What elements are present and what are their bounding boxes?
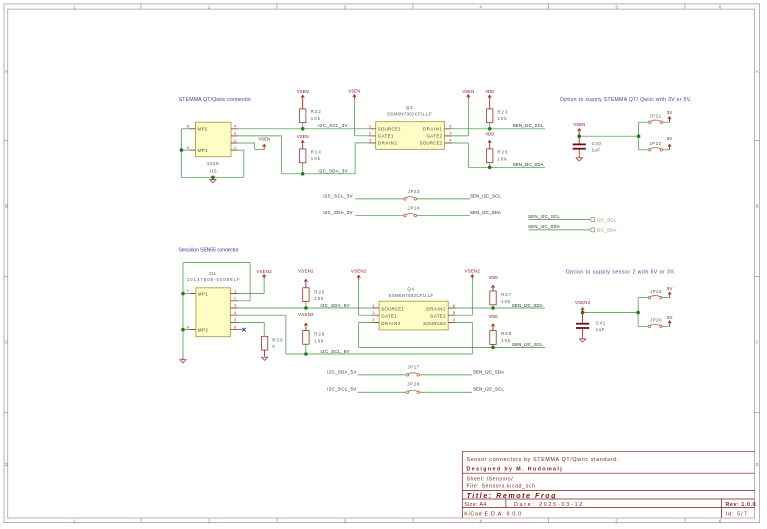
resistor R25 [487, 149, 509, 163]
svg-text:SEN_I2C_SDA: SEN_I2C_SDA [513, 162, 544, 167]
svg-text:GATE2: GATE2 [426, 134, 442, 139]
capacitor C40 1uF [573, 136, 602, 155]
wire [529, 219, 590, 221]
wire [637, 313, 639, 327]
label I2C_SCL_5V (JP28) [327, 387, 356, 392]
svg-text:10k: 10k [501, 338, 511, 343]
wire [231, 128, 376, 130]
resistor R29 [490, 331, 512, 345]
wire [231, 300, 250, 302]
wire [181, 128, 195, 130]
svg-text:I2C_SDA: I2C_SDA [597, 228, 617, 233]
svg-text:JP28: JP28 [407, 382, 420, 387]
svg-text:I2C_SCL_5V: I2C_SCL_5V [320, 349, 349, 354]
wire [181, 149, 195, 151]
wire [448, 314, 472, 316]
label SEN_I2C_SDA (hier row) [528, 224, 560, 229]
wire [231, 314, 286, 316]
junction node VSEN2 / C41 [581, 311, 585, 315]
svg-text:3V: 3V [667, 110, 673, 115]
junction J11 MP1 node [181, 292, 185, 296]
svg-text:Rev: 1.0.0: Rev: 1.0.0 [726, 502, 757, 508]
pin numbers J10 [187, 124, 237, 150]
wire [355, 215, 403, 217]
svg-text:VSEN: VSEN [462, 89, 474, 94]
svg-text:VSEN: VSEN [297, 89, 309, 94]
svg-text:SEN_I2C_SCL: SEN_I2C_SCL [512, 342, 543, 347]
wire [285, 315, 287, 354]
power VSEN2 (Q4 GATE1) [351, 269, 367, 281]
svg-text:10k: 10k [497, 116, 507, 121]
wire [662, 297, 669, 299]
wire [448, 307, 545, 309]
svg-text:4208: 4208 [207, 161, 220, 166]
svg-text:SEN_I2C_SCL: SEN_I2C_SCL [470, 193, 501, 198]
wire [358, 391, 406, 393]
svg-text:R27: R27 [501, 292, 512, 297]
pin numbers Q3 [369, 124, 453, 143]
power 5V (JP22) [667, 136, 673, 150]
svg-text:VDD: VDD [489, 275, 498, 280]
svg-text:Option to supply sensor 2 with: Option to supply sensor 2 with 5V or 3V. [566, 269, 676, 275]
no-connect J11 pin 6 [242, 328, 246, 332]
svg-text:1uF: 1uF [592, 147, 601, 152]
svg-text:JP26: JP26 [650, 318, 663, 323]
svg-text:GATE1: GATE1 [378, 134, 394, 139]
svg-text:10k: 10k [501, 299, 511, 304]
svg-text:10k: 10k [497, 156, 507, 161]
wire [281, 136, 283, 174]
svg-text:D: D [755, 462, 758, 467]
junction node SEN_I2C_SDA / R27 [491, 306, 495, 310]
power VDD (R23) [485, 89, 494, 109]
svg-text:0: 0 [272, 344, 275, 349]
pin numbers Q4 [372, 303, 456, 322]
wire [663, 121, 670, 123]
junction node I2C_SCL_3V / R22 [301, 127, 305, 131]
svg-text:JP21: JP21 [649, 113, 662, 118]
svg-text:R25: R25 [497, 150, 508, 155]
svg-text:VDD: VDD [485, 132, 494, 137]
label SEN_I2C_SDA (JP24) [470, 210, 501, 215]
power VSEN (J10 pin2) [258, 137, 270, 150]
svg-text:I2C_SDA_3V: I2C_SDA_3V [318, 168, 347, 173]
wire [489, 163, 491, 168]
svg-text:I2C_SCL_3V: I2C_SCL_3V [318, 123, 347, 128]
svg-text:Sensirion SEN55 connector: Sensirion SEN55 connector [179, 248, 239, 254]
power 5V (JP25) [667, 286, 673, 297]
label I2C_SDA_3V (wire) [318, 168, 347, 173]
wire [529, 229, 590, 231]
dual MOSFET Q3 SSM6N7002CFU,LF [369, 105, 452, 150]
wire [637, 298, 639, 313]
jumper JP22 [649, 141, 663, 151]
svg-text:1uF: 1uF [596, 327, 605, 332]
svg-text:SSM6N7002CFU,LF: SSM6N7002CFU,LF [389, 293, 434, 298]
wire [662, 325, 669, 327]
wire [639, 121, 649, 123]
wire [286, 353, 472, 355]
hierarchical label I2C_SCL [590, 217, 617, 222]
wire [263, 322, 265, 336]
svg-text:VDD: VDD [489, 314, 498, 319]
junction J10 MP1 node [180, 148, 184, 152]
svg-text:10k: 10k [314, 296, 324, 301]
wire [417, 198, 470, 200]
svg-text:VSEN2: VSEN2 [351, 269, 367, 274]
svg-text:VSEN: VSEN [258, 137, 270, 142]
power VSEN (R24) [297, 134, 309, 149]
svg-text:VSEN: VSEN [348, 89, 360, 94]
label SEN_I2C_SCL (wire) [513, 123, 544, 128]
label SEN_I2C_SDA (wire bottom) [512, 303, 543, 308]
connector J11 (10147806-00008LF) [187, 271, 242, 337]
svg-text:GATE1: GATE1 [381, 314, 397, 319]
wire [417, 215, 470, 217]
junction node I2C_SDA_3V / R24 [301, 172, 305, 176]
svg-text:MP1: MP1 [198, 292, 208, 297]
svg-text:R28: R28 [314, 331, 325, 336]
svg-text:VSEN2: VSEN2 [465, 268, 481, 273]
junction node SEN_I2C_SDA / R25 [488, 166, 492, 170]
svg-text:Q4: Q4 [407, 287, 414, 292]
svg-text:SEN_I2C_SDA: SEN_I2C_SDA [473, 369, 504, 374]
svg-text:Option to supply STEMMA QT/ Qw: Option to supply STEMMA QT/ Qwiic with 3… [560, 97, 692, 103]
ground J11 [180, 358, 186, 363]
power VDD (R27) [489, 275, 498, 291]
svg-text:Id: 5/7: Id: 5/7 [726, 512, 748, 518]
wire [489, 123, 491, 129]
svg-text:A: A [5, 69, 8, 74]
wire [302, 163, 304, 174]
wire [467, 99, 469, 136]
resistor R22 [300, 109, 322, 123]
junction node I2C_SCL_5V / R28 [304, 352, 308, 356]
jumper JP21 [649, 113, 663, 123]
svg-text:SSM6N7002CFU,LF: SSM6N7002CFU,LF [387, 112, 432, 117]
svg-text:File: Sensors.kicad_sch: File: Sensors.kicad_sch [467, 484, 536, 490]
power VSEN2 (R26) [298, 268, 314, 287]
wire [445, 142, 469, 144]
svg-text:Date: 2025-03-12: Date: 2025-03-12 [514, 502, 584, 508]
power VSEN2 (R28) [298, 312, 314, 330]
svg-text:B: B [5, 204, 8, 209]
svg-text:DRAIN1: DRAIN1 [426, 306, 446, 311]
power 3V (JP26) [667, 315, 673, 326]
svg-text:J11: J11 [209, 271, 217, 276]
connector J10 (4208) [189, 122, 238, 173]
wire [231, 293, 264, 295]
wire [448, 321, 472, 323]
svg-text:B: B [756, 204, 759, 209]
pin numbers J11 [187, 288, 237, 329]
label I2C_SCL_5V (wire) [320, 349, 349, 354]
svg-text:R29: R29 [501, 331, 512, 336]
ground C41 [579, 337, 585, 342]
svg-text:C40: C40 [592, 141, 602, 146]
wire [492, 345, 494, 348]
svg-text:C: C [755, 340, 758, 345]
label SEN_I2C_SCL (wire bottom) [512, 342, 543, 347]
junction node jumper split bottom [636, 311, 640, 315]
svg-text:R26: R26 [314, 289, 325, 294]
junction node VSEN / C40 [577, 134, 581, 138]
wire [305, 302, 307, 308]
svg-text:R30: R30 [272, 337, 283, 342]
svg-text:10147806-00008LF: 10147806-00008LF [187, 277, 241, 282]
svg-text:SOURCE2: SOURCE2 [420, 141, 443, 146]
power VDD (R25) [485, 132, 494, 149]
text note: Option to supply sensor 2 with 5V or 3V. [566, 269, 676, 275]
wire [231, 307, 379, 309]
svg-text:I2C_SCL_5V: I2C_SCL_5V [327, 387, 356, 392]
text note: STEMMA QT/Qwiic connector [179, 97, 252, 103]
svg-text:I2C_SDA_5V: I2C_SDA_5V [327, 369, 356, 374]
svg-text:MP1: MP1 [198, 148, 208, 153]
svg-text:R24: R24 [311, 149, 322, 154]
svg-text:VSEN2: VSEN2 [575, 300, 591, 305]
jumper JP27 [406, 365, 420, 377]
svg-text:I2C_SCL: I2C_SCL [597, 217, 617, 222]
svg-text:Designed by M. Hudomalj: Designed by M. Hudomalj [467, 466, 564, 472]
junction J11 MP2 node [181, 328, 185, 332]
svg-text:I2C_SDA_3V: I2C_SDA_3V [323, 210, 352, 215]
wire [249, 263, 251, 301]
label SEN_I2C_SCL (JP23) [470, 193, 501, 198]
junction node SEN_I2C_SCL / R29 [491, 346, 495, 350]
svg-text:VSEN: VSEN [573, 122, 585, 127]
svg-text:R23: R23 [497, 109, 508, 114]
dual MOSFET Q4 SSM6N7002CFU,LF [372, 287, 455, 330]
svg-text:Title: Remote Frog: Title: Remote Frog [467, 491, 558, 500]
wire [231, 149, 244, 151]
ground C40 [576, 156, 582, 161]
svg-text:10k: 10k [311, 156, 321, 161]
label I2C_SDA_5V (wire) [320, 303, 349, 308]
wire [305, 344, 307, 354]
label I2C_SCL_3V (wire) [318, 123, 347, 128]
power VSEN (Q3 GATE1) [348, 89, 360, 99]
svg-text:I2C_SCL_3V: I2C_SCL_3V [323, 193, 352, 198]
svg-text:5V: 5V [667, 136, 673, 141]
svg-text:STEMMA QT/Qwiic connector: STEMMA QT/Qwiic connector [179, 97, 252, 103]
power VSEN2 (Q4 GATE2) [465, 268, 481, 279]
power 3V (JP21) [667, 110, 673, 122]
resistor R26 [303, 288, 326, 302]
wire [180, 129, 182, 178]
svg-text:MP2: MP2 [198, 127, 208, 132]
svg-text:VSEN2: VSEN2 [256, 269, 272, 274]
wire [254, 143, 256, 150]
svg-text:A: A [756, 69, 759, 74]
resistor R27 [490, 291, 512, 305]
svg-text:SEN_I2C_SCL: SEN_I2C_SCL [473, 387, 504, 392]
svg-text:Size: A4: Size: A4 [464, 502, 487, 508]
wire [302, 123, 304, 129]
resistor R23 [487, 109, 509, 123]
resistor R28 [303, 330, 326, 344]
svg-text:SOURCE2: SOURCE2 [423, 321, 446, 326]
svg-text:Sensor connectors by STEMMA QT: Sensor connectors by STEMMA QT/Qwiic sta… [467, 457, 619, 463]
power VDD (R29) [489, 314, 498, 331]
svg-text:SOURCE1: SOURCE1 [378, 126, 401, 131]
svg-text:D: D [5, 462, 8, 467]
wire [255, 149, 265, 151]
label SEN_I2C_SDA (JP27) [473, 369, 504, 374]
wire [231, 321, 264, 323]
wire [638, 325, 648, 327]
wire [445, 135, 469, 137]
wire [359, 321, 379, 323]
svg-text:SEN_I2C_SDA: SEN_I2C_SDA [512, 303, 543, 308]
svg-text:SEN_I2C_SCL: SEN_I2C_SCL [528, 214, 560, 219]
wire [231, 142, 255, 144]
wire [282, 173, 355, 175]
svg-text:KiCad E.D.A. 9.0.0: KiCad E.D.A. 9.0.0 [464, 512, 522, 518]
wire [353, 99, 355, 136]
wire [263, 279, 265, 294]
label I2C_SDA_3V (JP24) [323, 210, 352, 215]
wire [183, 293, 196, 295]
junction node jumper split top [637, 134, 641, 138]
jumper JP23 [404, 189, 421, 200]
svg-text:C: C [5, 340, 8, 345]
wire [183, 329, 196, 331]
jumper JP25 [648, 289, 662, 299]
wire [354, 143, 356, 174]
wire [471, 322, 473, 354]
ground J10 [210, 177, 216, 182]
power VSEN (R22) [297, 89, 309, 109]
svg-text:JP27: JP27 [407, 365, 420, 370]
title block [462, 451, 756, 518]
wire [355, 198, 403, 200]
wire [492, 305, 494, 308]
wire [663, 149, 670, 151]
svg-text:VSEN2: VSEN2 [298, 312, 314, 317]
svg-text:JP25: JP25 [650, 289, 663, 294]
hierarchical label I2C_SDA [590, 228, 617, 233]
jumper JP24 [404, 206, 421, 217]
text note: Option to supply STEMMA QT/ Qwiic with 3V or 5V. [560, 97, 692, 103]
wire [355, 142, 376, 144]
wire [359, 314, 379, 316]
wire [354, 135, 375, 137]
jumper JP28 [406, 382, 420, 394]
svg-text:SEN_I2C_SDA: SEN_I2C_SDA [470, 210, 501, 215]
wire [471, 279, 473, 315]
svg-text:DRAIN2: DRAIN2 [378, 141, 398, 146]
svg-text:SOURCE1: SOURCE1 [381, 306, 404, 311]
junction node I2C_SDA_5V / R26 [304, 306, 308, 310]
svg-text:VSEN2: VSEN2 [298, 268, 314, 273]
resistor R30 0 [261, 336, 283, 355]
text note: Sensirion SEN55 connector [179, 248, 239, 254]
label SEN_I2C_SCL (hier row) [528, 214, 560, 219]
svg-text:JP23: JP23 [408, 189, 421, 194]
svg-text:Sheet: /Sensors/: Sheet: /Sensors/ [467, 476, 514, 482]
svg-text:JP24: JP24 [408, 206, 421, 211]
svg-text:VSEN: VSEN [297, 134, 309, 139]
svg-text:C41: C41 [596, 320, 606, 325]
power VSEN (C40) [573, 122, 585, 136]
junction gnd node J10 [211, 176, 215, 180]
svg-text:Q3: Q3 [406, 105, 413, 110]
label SEN_I2C_SCL (JP28) [473, 387, 504, 392]
wire [358, 374, 406, 376]
wire [181, 176, 243, 178]
svg-text:3V: 3V [667, 315, 673, 320]
wire [358, 280, 360, 315]
power VSEN2 (J11 pin1) [256, 269, 272, 279]
svg-text:SEN_I2C_SDA: SEN_I2C_SDA [528, 224, 560, 229]
wire [579, 135, 638, 137]
svg-text:10k: 10k [314, 338, 324, 343]
svg-text:10k: 10k [311, 116, 321, 121]
svg-text:SEN_I2C_SCL: SEN_I2C_SCL [513, 123, 544, 128]
ground R30 [261, 355, 267, 360]
label I2C_SCL_3V (JP23) [323, 193, 352, 198]
svg-text:DRAIN1: DRAIN1 [423, 126, 443, 131]
svg-text:VDD: VDD [485, 89, 494, 94]
svg-text:JP22: JP22 [649, 141, 662, 146]
wire [231, 135, 282, 137]
wire [638, 136, 640, 150]
wire [359, 346, 545, 348]
wire [468, 166, 545, 168]
wire [182, 263, 184, 358]
wire [420, 374, 472, 376]
label I2C_SDA_5V (JP27) [327, 369, 356, 374]
wire [243, 150, 245, 177]
label SEN_I2C_SDA (wire) [513, 162, 544, 167]
wire [467, 143, 469, 167]
svg-text:MP2: MP2 [198, 328, 208, 333]
resistor R24 [300, 149, 322, 163]
jumper JP26 [648, 318, 662, 328]
wire [638, 122, 640, 136]
power VSEN (Q3 GATE2) [462, 89, 474, 99]
wire [358, 322, 360, 347]
wire [183, 262, 250, 264]
svg-text:DRAIN2: DRAIN2 [381, 321, 401, 326]
wire [583, 312, 639, 314]
wire [420, 391, 472, 393]
svg-text:5V: 5V [667, 286, 673, 291]
svg-text:I2C_SDA_5V: I2C_SDA_5V [320, 303, 349, 308]
wire [445, 128, 545, 130]
power VSEN2 (C41) [575, 300, 591, 313]
svg-text:GATE2: GATE2 [430, 314, 446, 319]
capacitor C41 1uF [576, 313, 606, 337]
svg-text:J10: J10 [209, 168, 217, 173]
wire [639, 149, 649, 151]
svg-text:R22: R22 [311, 109, 322, 114]
junction node SEN_I2C_SCL / R23 [488, 127, 492, 131]
wire [638, 297, 648, 299]
